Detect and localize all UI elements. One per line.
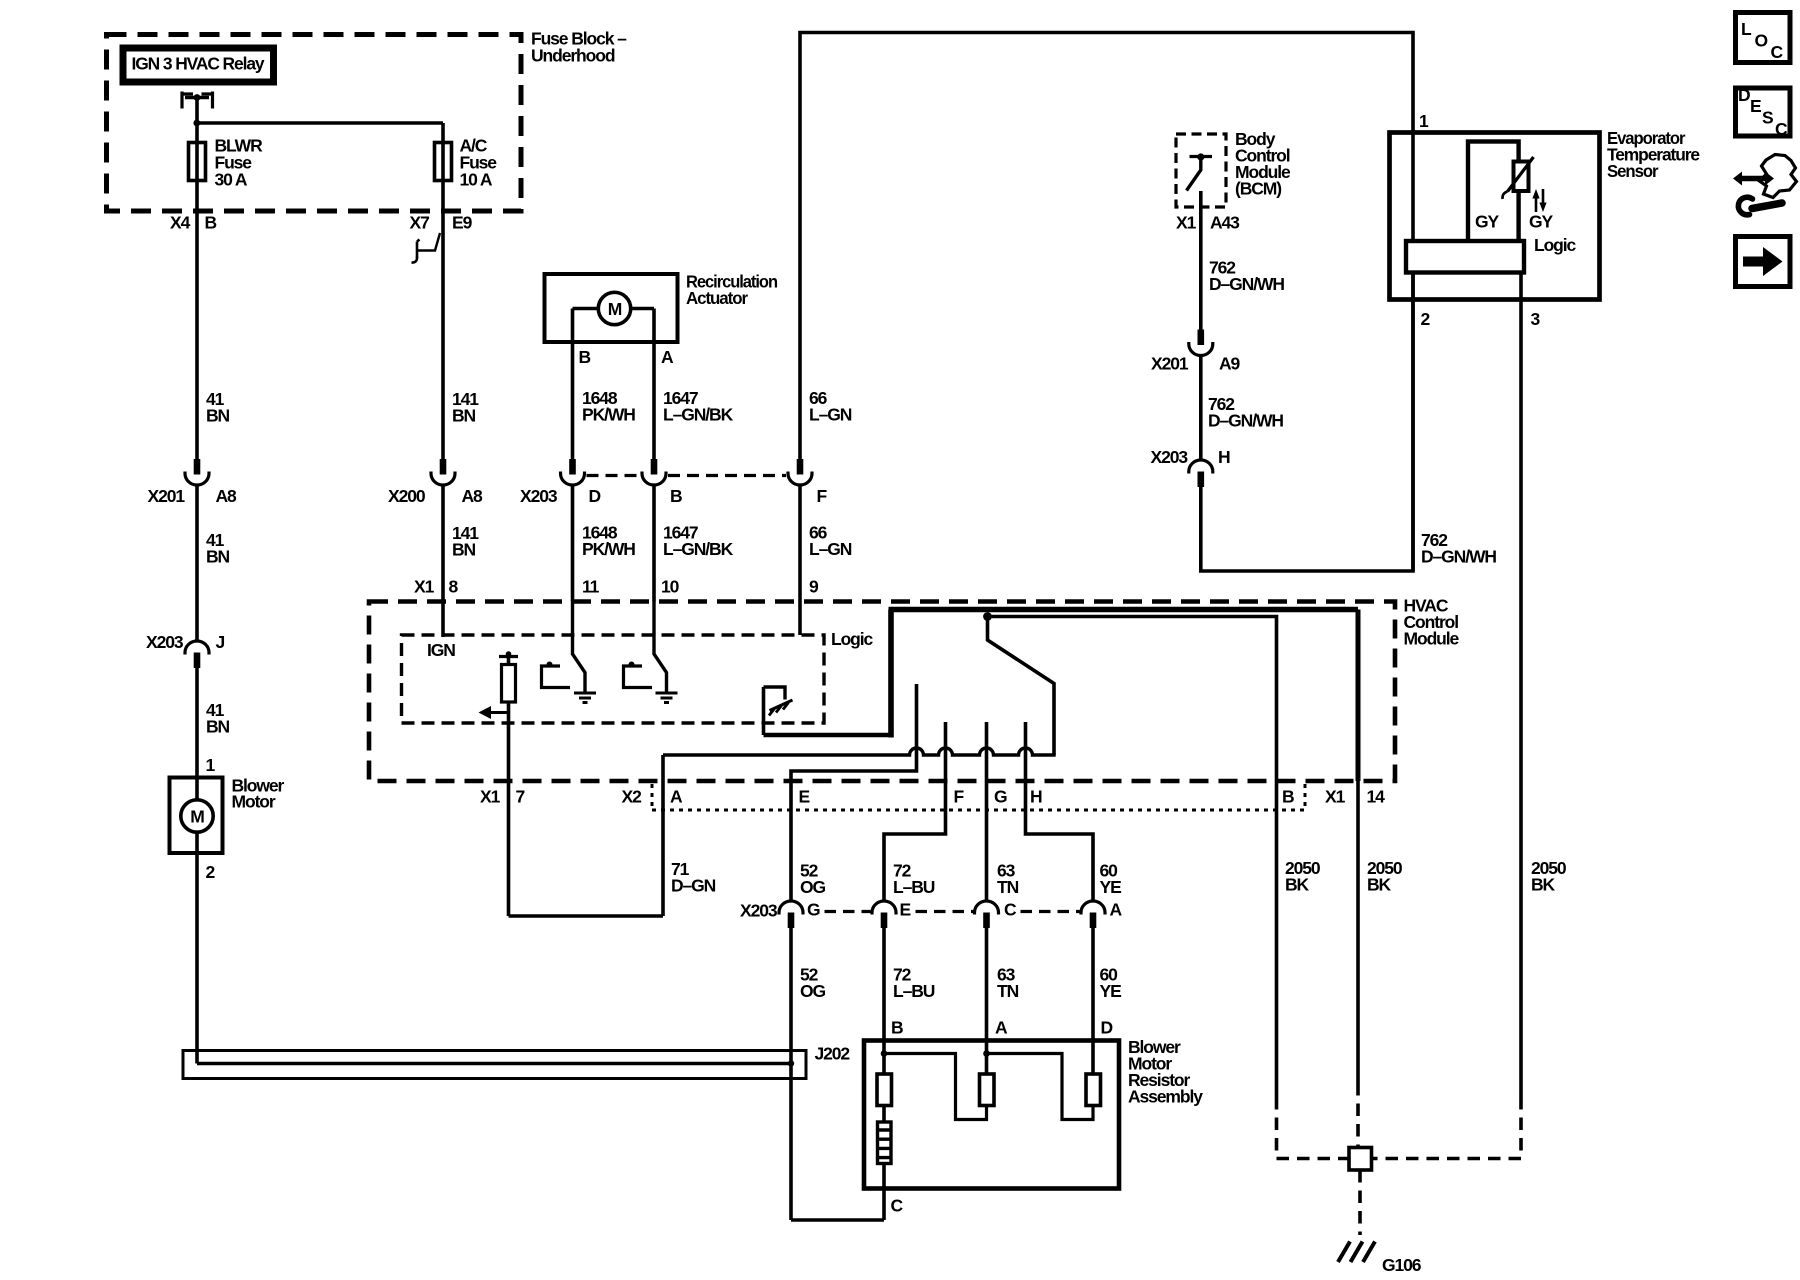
svg-text:2: 2 <box>1421 309 1431 329</box>
thermistor RT <box>1502 157 1533 199</box>
connector X203 pin E <box>872 901 896 928</box>
wire switch tap to X2-E <box>791 684 917 901</box>
wire ground bus bottom run <box>764 733 892 738</box>
svg-text:X201: X201 <box>1151 354 1189 374</box>
svg-text:X1: X1 <box>414 577 435 597</box>
svg-text:Module: Module <box>1404 629 1460 649</box>
connector X203 pin J <box>185 641 209 668</box>
wire relay to X4-B (41 BN) <box>195 99 199 460</box>
icon LOC box <box>1736 13 1791 63</box>
svg-text:YE: YE <box>1100 981 1122 1001</box>
wire resistor link B to R2 <box>884 1054 987 1120</box>
svg-text:Assembly: Assembly <box>1128 1087 1203 1107</box>
connector X203 pin C <box>975 901 999 928</box>
svg-text:M: M <box>608 299 622 319</box>
connector X203 pin A <box>1081 901 1105 928</box>
wire 66 L-GN top run to evaporator sensor pin 1 <box>800 33 1413 460</box>
svg-text:M: M <box>190 807 204 827</box>
svg-text:E: E <box>900 900 911 920</box>
wire 41 BN segment 2 <box>195 487 199 641</box>
svg-text:B: B <box>579 347 591 367</box>
svg-text:A8: A8 <box>216 486 238 506</box>
svg-text:14: 14 <box>1367 787 1386 807</box>
svg-text:BN: BN <box>452 540 476 560</box>
svg-text:Logic: Logic <box>1534 235 1577 255</box>
svg-text:F: F <box>954 787 965 807</box>
chassis ground symbol inside logic <box>764 687 793 716</box>
switch inside BCM <box>1187 153 1213 190</box>
wire dashed drop to G106 <box>1358 1170 1362 1235</box>
wire 1648 segment 2 <box>571 487 575 602</box>
svg-text:2: 2 <box>206 862 216 882</box>
blower motor M1 <box>170 778 223 854</box>
svg-text:G106: G106 <box>1382 1255 1422 1275</box>
svg-text:IGN 3 HVAC Relay: IGN 3 HVAC Relay <box>132 54 265 74</box>
connector X2 dotted boundary <box>652 784 1305 810</box>
svg-text:L–BU: L–BU <box>893 981 935 1001</box>
fuse block - underhood dashed box <box>107 35 522 212</box>
ground G106 symbol <box>1338 1242 1375 1263</box>
wire bottom loop 52 OG to pin C <box>791 1218 884 1222</box>
X203 connector dashed link <box>668 474 786 477</box>
svg-text:B: B <box>1282 787 1294 807</box>
wire resistor link A to R3 <box>987 1054 1094 1120</box>
svg-text:S: S <box>1762 108 1773 128</box>
wire 72 L-BU to resistor pin B <box>882 927 886 1074</box>
svg-text:X1: X1 <box>480 787 501 807</box>
svg-text:Actuator: Actuator <box>686 288 748 308</box>
wire 2050 BK dashed run right <box>1372 1097 1522 1159</box>
wire switch tap to X2-G <box>985 722 989 901</box>
X203 lower dashed link <box>916 910 974 913</box>
svg-text:A: A <box>1110 900 1123 920</box>
wire ground bus riser <box>888 610 894 738</box>
svg-text:BK: BK <box>1285 875 1310 895</box>
connector X201 pin A9 <box>1189 330 1213 356</box>
wire 762 to evaporator sensor pin 2 <box>1201 273 1413 572</box>
sensor internal block <box>1468 142 1519 243</box>
relay K: contact symbol <box>182 92 213 109</box>
resistor R3 <box>1086 1074 1101 1106</box>
svg-text:1: 1 <box>206 755 216 775</box>
svg-text:L–GN: L–GN <box>809 405 852 425</box>
svg-text:B: B <box>670 486 682 506</box>
svg-text:Logic: Logic <box>831 629 874 649</box>
svg-text:OG: OG <box>800 877 826 897</box>
resistor R1 <box>877 1074 892 1106</box>
fuse F2 A/C 10A <box>435 143 452 181</box>
wire 762 segment 2 <box>1199 357 1203 460</box>
svg-text:BN: BN <box>206 717 230 737</box>
svg-text:A8: A8 <box>462 486 484 506</box>
junction resistor pin B <box>881 1050 888 1057</box>
svg-text:BN: BN <box>206 547 230 567</box>
svg-text:L–GN/BK: L–GN/BK <box>663 405 734 425</box>
connector X203 pin F <box>788 459 812 485</box>
resistor R2 <box>980 1074 995 1106</box>
svg-text:BK: BK <box>1531 875 1556 895</box>
wire thermal limiter to pin C <box>882 1164 886 1221</box>
svg-text:X203: X203 <box>520 486 558 506</box>
wire ground bus to X1-14 <box>1356 610 1361 782</box>
wire 63 TN to resistor pin A <box>985 927 989 1074</box>
connector X203 pin B <box>642 459 666 485</box>
svg-text:L–BU: L–BU <box>893 877 935 897</box>
svg-text:A: A <box>661 347 674 367</box>
wire 2050 BK from pin B <box>1275 781 1279 1097</box>
svg-text:D–GN/WH: D–GN/WH <box>1208 411 1283 431</box>
sensor bottom bar <box>1406 241 1524 273</box>
wire X1-7 to X2-A loop <box>509 914 664 918</box>
wire 60 YE to resistor pin D <box>1091 927 1095 1074</box>
junction J202 <box>788 1060 794 1066</box>
svg-text:1: 1 <box>1419 111 1429 131</box>
icon DESC box <box>1736 85 1791 139</box>
svg-text:BN: BN <box>452 406 476 426</box>
svg-text:PK/WH: PK/WH <box>582 539 635 559</box>
wire driver output to X1-7 (71 D-GN) <box>507 702 511 916</box>
svg-text:(BCM): (BCM) <box>1235 179 1281 199</box>
svg-text:X4: X4 <box>170 213 191 233</box>
svg-text:YE: YE <box>1100 877 1122 897</box>
svg-text:C: C <box>1771 42 1784 62</box>
svg-text:BK: BK <box>1367 875 1392 895</box>
svg-text:H: H <box>1218 447 1230 467</box>
svg-text:J202: J202 <box>815 1044 851 1064</box>
svg-text:D: D <box>1101 1018 1113 1038</box>
svg-text:B: B <box>891 1018 903 1038</box>
wire ground bus top run <box>889 607 1359 613</box>
svg-text:A: A <box>995 1018 1008 1038</box>
X203 connector dashed link <box>587 474 641 477</box>
wire actuator B (1648 PK/WH) <box>571 309 575 460</box>
ground symbol (S2) <box>656 693 678 703</box>
svg-text:TN: TN <box>997 877 1019 897</box>
splice block at G106 <box>1349 1148 1372 1171</box>
svg-text:X203: X203 <box>146 632 184 652</box>
IGN 3 HVAC Relay label box <box>123 48 274 82</box>
wire 2050 BK from X1-14 <box>1356 781 1360 1083</box>
connector X203 pin H <box>1189 460 1213 487</box>
wire 52 OG blower motor to J202 <box>195 832 199 1064</box>
svg-text:C: C <box>1004 900 1017 920</box>
blower driver element (resistor with arrow output) <box>479 651 519 719</box>
svg-text:J: J <box>216 632 225 652</box>
svg-text:10 A: 10 A <box>460 170 493 190</box>
svg-text:Motor: Motor <box>232 792 276 812</box>
connector X203 pin D <box>561 459 585 485</box>
svg-text:H: H <box>1030 787 1042 807</box>
svg-text:30 A: 30 A <box>215 170 248 190</box>
wire 2050 BK dashed run middle <box>1356 1083 1360 1148</box>
svg-text:BN: BN <box>206 406 230 426</box>
ground symbol (S1) <box>574 693 596 703</box>
terminal clip symbol at X7-E9 <box>412 233 441 263</box>
svg-text:X203: X203 <box>740 901 778 921</box>
svg-text:10: 10 <box>661 577 680 597</box>
wire fan switch wiper <box>988 620 1055 755</box>
svg-text:E: E <box>799 787 810 807</box>
wire chassis ground drop <box>762 687 766 735</box>
svg-text:X2: X2 <box>622 787 643 807</box>
svg-text:GY: GY <box>1529 212 1554 232</box>
connector X203 pin G <box>779 901 803 928</box>
switch S1 to ground (recirc control pin 11) <box>542 602 586 693</box>
blower motor resistor assembly box <box>864 1041 1119 1189</box>
switch S2 to ground (recirc control pin 10) <box>624 602 667 693</box>
logic block dashed box <box>402 635 825 723</box>
X203 lower dashed link <box>1021 910 1080 913</box>
svg-text:X203: X203 <box>1151 447 1189 467</box>
wire ground bus to pin B <box>988 617 1277 782</box>
junction resistor pin A <box>983 1050 990 1057</box>
svg-text:X1: X1 <box>1176 213 1197 233</box>
svg-text:L–GN/BK: L–GN/BK <box>663 539 734 559</box>
svg-text:E9: E9 <box>452 213 473 233</box>
svg-text:Sensor: Sensor <box>1607 161 1659 181</box>
fan speed switch common line with hops <box>663 748 1056 755</box>
svg-text:C: C <box>891 1196 904 1216</box>
svg-text:G: G <box>994 787 1007 807</box>
svg-text:A9: A9 <box>1219 354 1241 374</box>
fuse F1 BLWR 30A <box>189 143 206 181</box>
wire 1647 segment 2 <box>652 487 656 602</box>
svg-text:X7: X7 <box>410 213 430 233</box>
svg-text:7: 7 <box>516 787 525 807</box>
junction relay output <box>193 120 200 127</box>
svg-text:D–GN/WH: D–GN/WH <box>1421 547 1496 567</box>
svg-text:O: O <box>1755 31 1768 51</box>
connector X200 pin A8 <box>431 459 455 485</box>
wire sensor pin 2 drop <box>1411 273 1415 572</box>
HVAC control module dashed box <box>369 602 1395 782</box>
wire 41 BN segment 3 <box>195 667 199 800</box>
svg-text:D–GN/WH: D–GN/WH <box>1209 274 1284 294</box>
svg-text:GY: GY <box>1475 212 1500 232</box>
wire switch tap to X2-F <box>884 722 946 901</box>
connector X201 pin A8 <box>185 459 209 485</box>
wire 141 BN segment 2 <box>441 487 445 638</box>
svg-text:A: A <box>670 787 683 807</box>
svg-text:D: D <box>589 486 601 506</box>
wire 2050 BK dashed run left <box>1277 1097 1350 1159</box>
svg-text:X201: X201 <box>148 486 186 506</box>
wire relay to A/C fuse <box>197 121 443 125</box>
wire R1 to thermal limiter <box>882 1106 886 1123</box>
svg-text:TN: TN <box>997 981 1019 1001</box>
svg-text:Underhood: Underhood <box>531 46 615 66</box>
svg-text:9: 9 <box>809 577 819 597</box>
svg-text:D: D <box>1738 85 1750 105</box>
body control module dashed box <box>1176 134 1226 207</box>
svg-text:L–GN: L–GN <box>809 539 852 559</box>
svg-text:IGN: IGN <box>427 640 455 660</box>
svg-text:G: G <box>807 900 820 920</box>
thermal limiter element <box>878 1122 892 1164</box>
icon arrows and wrench <box>1733 155 1797 215</box>
svg-text:3: 3 <box>1531 309 1541 329</box>
junction ground bus / switch wiper <box>983 612 992 621</box>
wire sensor pin 1 internal <box>1411 133 1415 244</box>
svg-text:OG: OG <box>800 981 826 1001</box>
wire sensor pin 3 (2050 BK) <box>1519 273 1523 1098</box>
evaporator temperature sensor box <box>1390 133 1600 300</box>
svg-text:11: 11 <box>582 577 600 597</box>
svg-text:X200: X200 <box>388 486 426 506</box>
wire switch tap to X2-H <box>1026 722 1094 901</box>
svg-text:PK/WH: PK/WH <box>582 405 635 425</box>
svg-text:F: F <box>817 486 828 506</box>
wire 66 segment 2 into logic <box>798 487 802 636</box>
recirculation actuator M2 <box>545 274 678 342</box>
svg-text:X1: X1 <box>1325 787 1346 807</box>
svg-text:C: C <box>1775 119 1788 139</box>
wire X2-A drop (71 D-GN) <box>661 755 665 916</box>
wire 52 OG to J202 and bottom loop <box>789 927 793 1220</box>
svg-text:B: B <box>205 213 217 233</box>
svg-text:D–GN: D–GN <box>671 876 716 896</box>
svg-text:E: E <box>1750 96 1761 116</box>
wire driver top <box>507 657 511 665</box>
wire actuator A (1647 L-GN/BK) <box>652 309 656 460</box>
wire A/C fuse to X7-E9 (141 BN) <box>441 123 445 460</box>
splice pack J202 <box>183 1051 806 1079</box>
icon arrow box <box>1736 237 1791 287</box>
svg-text:A43: A43 <box>1210 213 1240 233</box>
svg-text:L: L <box>1741 19 1752 39</box>
svg-text:8: 8 <box>449 577 459 597</box>
X203 lower dashed link <box>825 910 871 913</box>
wire BCM A43 (762 D-GN/WH) <box>1199 191 1203 330</box>
up-down arrows <box>1532 189 1546 212</box>
